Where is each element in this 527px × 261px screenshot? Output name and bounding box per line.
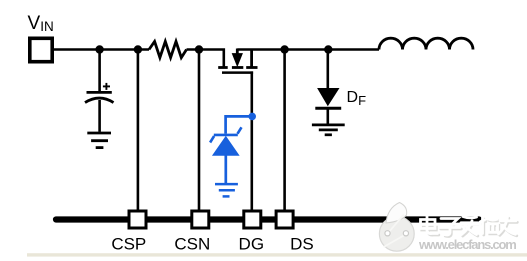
wire (237, 48, 379, 51)
transistor Q1 (218, 49, 257, 73)
svg-text:www.elecfans.com: www.elecfans.com (418, 237, 516, 252)
resistor R1 (149, 42, 187, 58)
node (134, 45, 142, 53)
ground (312, 125, 345, 135)
svg-text:CSP: CSP (111, 235, 146, 254)
terminal CSP (129, 211, 146, 228)
watermark logo (379, 203, 414, 252)
wire (137, 50, 140, 211)
ground (blue) (215, 184, 238, 196)
node (195, 45, 203, 53)
svg-text:CSN: CSN (174, 235, 210, 254)
wire (326, 50, 329, 89)
terminal DG (244, 211, 261, 228)
decorative bottom bar (27, 253, 527, 256)
wire (98, 100, 101, 132)
svg-text:VIN: VIN (28, 13, 54, 34)
diode DF (315, 88, 341, 108)
svg-text:DF: DF (347, 89, 367, 108)
ground bus (56, 216, 479, 222)
terminal CSN (192, 211, 209, 228)
terminal DS (276, 211, 293, 228)
wire (blue) (226, 116, 252, 133)
wire (52, 48, 149, 51)
wire (198, 50, 201, 211)
input terminal VIN (30, 38, 52, 61)
svg-text:DS: DS (290, 235, 314, 254)
ground (87, 133, 111, 148)
wire (blue) (224, 155, 227, 183)
node (280, 45, 288, 53)
inductor L1 (379, 38, 473, 49)
wire (187, 50, 224, 67)
wire (326, 108, 329, 124)
node (blue) (248, 113, 256, 121)
wire (283, 50, 286, 211)
node (95, 45, 103, 53)
zener diode DZ (210, 127, 241, 155)
capacitor C1 (85, 83, 114, 103)
wire (98, 50, 101, 92)
node (324, 45, 332, 53)
wire (251, 71, 254, 210)
svg-text:DG: DG (239, 235, 265, 254)
